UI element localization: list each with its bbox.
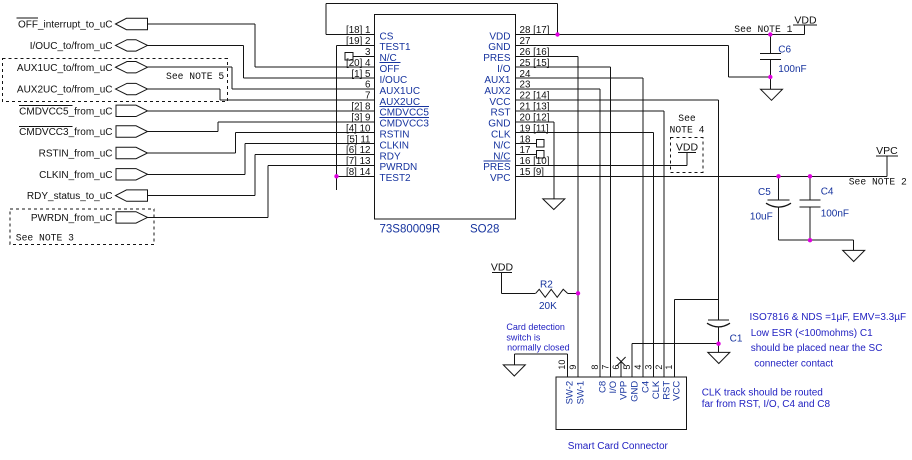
svg-text:23: 23 [520, 80, 531, 91]
svg-text:25 [15]: 25 [15] [520, 58, 550, 69]
svg-text:SW-1: SW-1 [575, 381, 586, 405]
svg-text:[20] 4: [20] 4 [346, 58, 371, 69]
svg-text:AUX1: AUX1 [484, 75, 511, 86]
svg-text:4: 4 [633, 365, 643, 370]
svg-text:Card detection: Card detection [506, 322, 565, 332]
svg-text:C8: C8 [597, 381, 608, 393]
svg-text:I/OUC_to/from_uC: I/OUC_to/from_uC [30, 41, 113, 52]
svg-text:PWRDN_from_uC: PWRDN_from_uC [31, 213, 113, 224]
svg-text:3: 3 [644, 365, 654, 370]
svg-text:15 [9]: 15 [9] [520, 167, 545, 178]
svg-text:I/O: I/O [497, 64, 511, 75]
svg-text:10: 10 [557, 360, 567, 370]
svg-text:R2: R2 [540, 280, 553, 291]
svg-text:RDY: RDY [380, 151, 401, 162]
svg-text:[19] 2: [19] 2 [346, 36, 371, 47]
svg-text:[7] 13: [7] 13 [346, 156, 371, 167]
svg-text:7: 7 [601, 365, 611, 370]
svg-text:Smart Card Connector: Smart Card Connector [568, 441, 669, 452]
svg-text:C5: C5 [758, 187, 771, 198]
svg-text:[18] 1: [18] 1 [346, 25, 371, 36]
svg-text:[2] 8: [2] 8 [351, 102, 371, 113]
svg-text:ISO7816 & NDS =1µF, EMV=3.3µF: ISO7816 & NDS =1µF, EMV=3.3µF [750, 312, 907, 323]
svg-text:24: 24 [520, 69, 531, 80]
svg-text:See NOTE 5: See NOTE 5 [166, 71, 224, 82]
svg-text:VCC: VCC [672, 381, 683, 401]
svg-text:CMDVCC3_from_uC: CMDVCC3_from_uC [19, 127, 112, 138]
svg-text:6: 6 [611, 365, 621, 370]
svg-text:PRES: PRES [483, 162, 511, 173]
svg-text:TEST1: TEST1 [380, 42, 412, 53]
svg-text:SO28: SO28 [470, 224, 499, 236]
svg-text:OFF_interrupt_to_uC: OFF_interrupt_to_uC [18, 20, 113, 31]
svg-text:CLK track should be routed: CLK track should be routed [702, 387, 823, 398]
svg-text:AUX2: AUX2 [484, 86, 511, 97]
svg-text:10uF: 10uF [750, 212, 773, 223]
svg-text:28 [17]: 28 [17] [520, 25, 550, 36]
svg-text:5: 5 [622, 365, 632, 370]
svg-text:VPC: VPC [876, 145, 898, 157]
svg-text:17: 17 [520, 145, 531, 156]
svg-text:[4] 10: [4] 10 [346, 123, 371, 134]
svg-text:C1: C1 [730, 334, 743, 345]
svg-text:[3] 9: [3] 9 [351, 113, 370, 124]
svg-text:27: 27 [520, 36, 531, 47]
svg-text:100nF: 100nF [778, 64, 806, 75]
svg-text:Low ESR (<100mohms) C1: Low ESR (<100mohms) C1 [751, 328, 873, 339]
svg-text:16 [10]: 16 [10] [520, 156, 550, 167]
svg-text:See NOTE 3: See NOTE 3 [16, 233, 74, 244]
svg-text:22 [14]: 22 [14] [520, 91, 550, 102]
svg-text:19 [11]: 19 [11] [520, 123, 550, 134]
svg-text:73S80009R: 73S80009R [380, 224, 441, 236]
svg-text:TEST2: TEST2 [380, 173, 412, 184]
svg-text:RSTIN_from_uC: RSTIN_from_uC [39, 149, 113, 160]
svg-text:CLK: CLK [651, 380, 662, 399]
svg-text:8: 8 [590, 365, 600, 370]
svg-text:7: 7 [365, 91, 370, 102]
svg-text:[5] 11: [5] 11 [347, 134, 371, 145]
svg-text:9: 9 [568, 365, 578, 370]
svg-text:3: 3 [365, 47, 371, 58]
svg-text:SW-2: SW-2 [565, 381, 576, 405]
svg-text:18: 18 [520, 134, 531, 145]
svg-text:CMDVCC3: CMDVCC3 [380, 119, 430, 130]
svg-text:21 [13]: 21 [13] [520, 102, 550, 113]
svg-text:1: 1 [664, 365, 674, 370]
svg-text:[8] 14: [8] 14 [346, 167, 371, 178]
svg-text:CS: CS [380, 31, 394, 42]
svg-text:RSTIN: RSTIN [380, 130, 410, 141]
svg-text:100nF: 100nF [821, 209, 849, 220]
svg-text:AUX1UC: AUX1UC [380, 86, 421, 97]
svg-text:normally closed: normally closed [507, 343, 570, 353]
svg-text:CLKIN: CLKIN [380, 140, 409, 151]
svg-text:I/O: I/O [608, 381, 619, 394]
svg-text:NOTE 4: NOTE 4 [670, 125, 705, 136]
svg-text:VDD: VDD [676, 141, 699, 153]
svg-text:2: 2 [654, 365, 664, 370]
svg-text:switch is: switch is [506, 333, 541, 343]
svg-text:connecter contact: connecter contact [754, 358, 833, 369]
svg-text:See: See [678, 113, 696, 124]
svg-text:6: 6 [365, 80, 371, 91]
svg-text:CLK: CLK [491, 130, 511, 141]
svg-text:CMDVCC5_from_uC: CMDVCC5_from_uC [19, 107, 112, 118]
svg-text:GND: GND [488, 119, 510, 130]
svg-text:PRES: PRES [483, 53, 511, 64]
svg-text:See NOTE 2: See NOTE 2 [849, 176, 907, 187]
svg-text:See NOTE 1: See NOTE 1 [734, 24, 792, 35]
svg-text:C6: C6 [778, 45, 791, 56]
svg-text:C4: C4 [641, 381, 652, 393]
svg-text:PWRDN: PWRDN [380, 162, 418, 173]
svg-text:20 [12]: 20 [12] [520, 113, 550, 124]
svg-text:20K: 20K [539, 301, 557, 312]
svg-text:N/C: N/C [493, 140, 510, 151]
svg-text:C4: C4 [821, 187, 834, 198]
svg-text:26 [16]: 26 [16] [520, 47, 550, 58]
svg-text:[6] 12: [6] 12 [346, 145, 371, 156]
svg-text:[1] 5: [1] 5 [351, 69, 371, 80]
svg-text:VDD: VDD [794, 15, 817, 27]
svg-text:AUX1UC_to/from_uC: AUX1UC_to/from_uC [17, 63, 113, 74]
svg-text:far from RST, I/O, C4 and C8: far from RST, I/O, C4 and C8 [702, 399, 831, 410]
svg-text:I/OUC: I/OUC [380, 75, 408, 86]
svg-text:VDD: VDD [489, 31, 510, 42]
svg-text:CLKIN_from_uC: CLKIN_from_uC [39, 170, 112, 181]
svg-text:GND: GND [488, 42, 510, 53]
svg-text:AUX2UC_to/from_uC: AUX2UC_to/from_uC [17, 85, 113, 96]
svg-text:OFF: OFF [380, 64, 400, 75]
svg-text:VPC: VPC [490, 173, 511, 184]
svg-text:VDD: VDD [491, 262, 514, 274]
svg-text:RST: RST [491, 108, 511, 119]
svg-text:VPP: VPP [618, 381, 629, 400]
svg-text:VCC: VCC [489, 97, 510, 108]
svg-text:GND: GND [630, 381, 641, 402]
svg-text:RDY_status_to_uC: RDY_status_to_uC [27, 191, 113, 202]
svg-text:should be placed near the SC: should be placed near the SC [751, 343, 883, 354]
